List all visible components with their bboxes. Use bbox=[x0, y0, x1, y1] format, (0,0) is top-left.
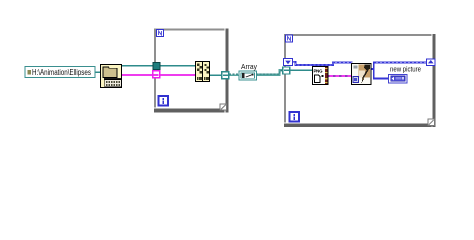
wire through FRAME1 pink tunnel bbox=[154, 74, 159, 76]
tunnel FRAME1 right output (path array, indexing) bbox=[222, 72, 229, 79]
iteration terminal i FRAME2 bbox=[290, 112, 300, 122]
wire path-array Array indicator to FRAME2 tunnel (hatched) bbox=[256, 70, 285, 74]
svg-text:PNG: PNG bbox=[314, 68, 324, 73]
for-loop FRAME2 resize handle bbox=[428, 119, 434, 125]
loop count N terminal FRAME1 bbox=[157, 30, 164, 37]
Read PNG File VI icon inside FRAME2 bbox=[313, 67, 329, 85]
svg-text:new picture: new picture bbox=[390, 65, 421, 74]
List Folder VI icon bbox=[101, 65, 122, 88]
for-loop FRAME1 resize handle bbox=[220, 104, 226, 110]
wire through FRAME1 right output tunnel bbox=[223, 74, 229, 76]
tunnel FRAME2 left input (path array, indexing) bbox=[283, 67, 290, 74]
svg-text:Array: Array bbox=[241, 62, 257, 71]
wire List Folder path out to FRAME1 tunnel bbox=[121, 65, 155, 67]
for-loop FRAME2 border bbox=[284, 34, 436, 127]
wire FRAME1 teal tunnel to Build Path input bbox=[158, 65, 197, 67]
for-loop FRAME1 border bbox=[154, 29, 229, 113]
wire FRAME2 left shift register to Draw Flattened Pixmap picture-in (blue) bbox=[293, 62, 353, 65]
path constant H:\Animation\Ellipses bbox=[25, 67, 95, 78]
wire Read PNG image data to Draw Flattened Pixmap (pink dashed cluster) bbox=[327, 75, 352, 77]
Draw Flattened Pixmap VI icon inside FRAME2 bbox=[352, 64, 372, 85]
wire FRAME1 pink tunnel to Build Path input bbox=[158, 74, 197, 76]
wire List Folder file names out to FRAME1 tunnel (pink) bbox=[121, 74, 155, 76]
wire FRAME2 tunnel to Read PNG path input (teal) bbox=[288, 69, 314, 71]
wire Draw Flattened Pixmap picture out to right shift register and terminal (blue) bbox=[371, 63, 427, 79]
wire Build Path output to FRAME1 output tunnel bbox=[209, 74, 223, 76]
wire path-array FRAME1 tunnel to Array indicator (hatched) bbox=[229, 74, 240, 75]
Build Path VI icon inside FRAME1 bbox=[196, 62, 210, 82]
Array indicator terminal bbox=[239, 71, 257, 80]
tunnel FRAME1 left pink (file names, indexing) bbox=[153, 71, 160, 78]
svg-text:H:\Animation\Ellipses: H:\Animation\Ellipses bbox=[32, 68, 91, 77]
shift register right (up arrow) FRAME2 bbox=[427, 59, 436, 66]
iteration terminal i FRAME1 bbox=[159, 96, 169, 106]
wire path-constant to List Folder bbox=[94, 71, 101, 73]
wire through FRAME2 left tunnel bbox=[284, 69, 290, 71]
shift register left (down arrow) FRAME2 bbox=[284, 59, 293, 66]
new picture indicator terminal bbox=[389, 74, 408, 83]
tunnel FRAME1 left teal (path, non-indexing) bbox=[153, 63, 160, 70]
loop count N terminal FRAME2 bbox=[286, 35, 293, 42]
